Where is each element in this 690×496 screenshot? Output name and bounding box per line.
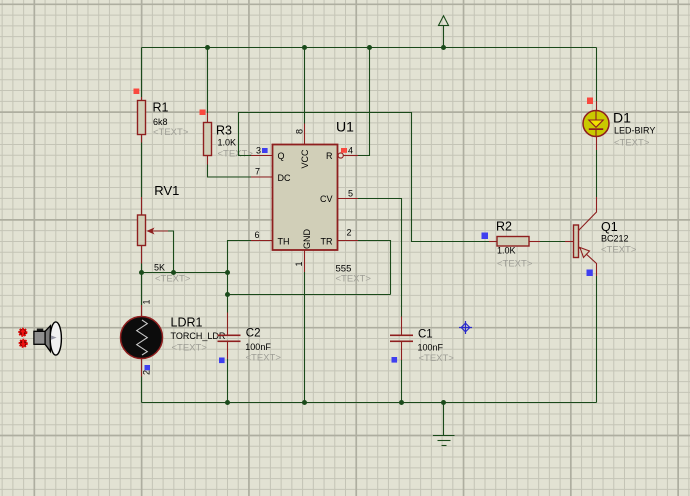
svg-text:5: 5	[348, 189, 353, 199]
transistor Q1	[574, 220, 637, 258]
marker red pin4	[341, 148, 347, 153]
wire LDR1 pin 1	[141, 305, 143, 317]
LED D1	[583, 110, 655, 149]
wire RV1 top pin	[141, 197, 143, 215]
svg-text:TR: TR	[321, 237, 333, 247]
svg-text:1.0K: 1.0K	[497, 246, 516, 256]
potentiometer RV1	[138, 183, 191, 285]
svg-text:<TEXT>: <TEXT>	[419, 353, 455, 364]
svg-text:U1: U1	[336, 119, 354, 135]
marker blue C1	[392, 357, 398, 363]
junction node wiper	[171, 270, 176, 275]
wire R2 right pin	[529, 241, 540, 243]
svg-text:<TEXT>: <TEXT>	[153, 127, 189, 138]
wire pin 7 DC stub	[251, 176, 273, 178]
svg-text:1: 1	[141, 299, 151, 304]
svg-text:<TEXT>: <TEXT>	[601, 245, 637, 256]
svg-text:2: 2	[347, 228, 352, 238]
marker blue Q1	[587, 270, 593, 277]
svg-text:Q: Q	[278, 151, 285, 161]
wire emitter to bottom rail	[596, 276, 598, 403]
svg-text:LDR1: LDR1	[171, 316, 203, 330]
svg-text:TH: TH	[278, 237, 290, 247]
marker blue R2	[482, 233, 489, 240]
wire pin 1 to bottom rail	[304, 272, 306, 403]
wire R3 bottom pin	[207, 156, 209, 165]
wire output Q path	[239, 113, 490, 242]
wire C2 to bottom rail	[227, 359, 229, 403]
wire pin 2 TR stub	[338, 240, 359, 242]
wire CV to C1	[358, 199, 402, 317]
wire C1 top pin	[401, 317, 403, 337]
svg-text:R2: R2	[496, 220, 512, 234]
resistor R1	[138, 101, 189, 139]
svg-text:1.0K: 1.0K	[218, 138, 237, 148]
junction node bottom rail pin1	[302, 400, 307, 405]
svg-text:<TEXT>: <TEXT>	[497, 259, 533, 270]
wire RV1 to node	[141, 264, 143, 273]
marker blue C2	[219, 358, 225, 364]
marker blue LDR1	[145, 365, 151, 370]
svg-text:<TEXT>: <TEXT>	[155, 274, 191, 285]
wire R1 top pin	[141, 97, 143, 101]
junction node bottom rail C2	[225, 400, 230, 405]
junction node bottom rail C1	[399, 400, 404, 405]
wire bottom ground rail	[142, 402, 597, 404]
wire pin 5 CV stub	[338, 198, 359, 200]
wire C1 bottom pin	[401, 341, 403, 361]
wire LDR to bottom rail	[141, 377, 143, 403]
svg-text:CV: CV	[320, 194, 333, 204]
marker blue pin3	[262, 148, 268, 153]
wire pin 2 TR leg	[358, 241, 391, 295]
wire R1 bottom pin	[141, 135, 143, 143]
svg-text:<TEXT>: <TEXT>	[614, 138, 650, 149]
wire wiper horizontal	[148, 230, 169, 232]
wire Q1 base pin	[565, 241, 574, 243]
wire C1 to bottom rail	[401, 360, 403, 403]
junction node left rail wiper	[139, 270, 144, 275]
wire LED branch from rail	[596, 48, 598, 102]
wire pin 4 stub to bubble	[344, 155, 359, 157]
wire rail node to pin6 column	[142, 272, 228, 274]
wire VCC top rail	[142, 47, 597, 49]
svg-text:6k8: 6k8	[153, 117, 168, 127]
junction node pin6 column A	[225, 270, 230, 275]
svg-text:R1: R1	[153, 101, 169, 115]
wire R3 to pin 7 corner	[208, 165, 252, 178]
svg-text:7: 7	[255, 167, 260, 177]
svg-text:5K: 5K	[154, 263, 165, 273]
svg-text:8: 8	[295, 129, 305, 134]
marker red R1	[134, 89, 140, 95]
svg-text:BC212: BC212	[601, 234, 629, 244]
svg-text:100nF: 100nF	[245, 342, 271, 352]
resistor R3	[204, 123, 237, 156]
marker red R3	[200, 110, 206, 116]
wire wiper to node	[168, 231, 174, 273]
svg-text:<TEXT>: <TEXT>	[336, 274, 372, 285]
wire Q1 collector pin	[579, 197, 597, 231]
wire RV1 bottom pin	[141, 246, 143, 264]
svg-text:VCC: VCC	[300, 149, 310, 169]
svg-text:100nF: 100nF	[418, 343, 444, 353]
wire LED to collector	[596, 150, 598, 197]
svg-text:DC: DC	[278, 173, 291, 183]
wire D1 top pin	[596, 101, 598, 111]
svg-text:2: 2	[141, 370, 151, 375]
junction node top rail at pin 8	[302, 45, 307, 50]
wire C2 top lead	[227, 295, 229, 313]
wire left rail top to R1	[141, 48, 143, 98]
svg-text:LED-BIRY: LED-BIRY	[614, 126, 655, 136]
wire pin 1 GND pin	[304, 250, 306, 272]
wire R1 to RV1	[141, 143, 143, 198]
wire node to LDR	[141, 273, 143, 306]
wire pin 6 to node column	[228, 241, 252, 295]
junction node top rail at R3	[205, 45, 210, 50]
svg-text:R: R	[326, 151, 333, 161]
marker red D1	[587, 98, 593, 105]
svg-text:3: 3	[256, 146, 261, 156]
svg-text:<TEXT>: <TEXT>	[246, 353, 282, 364]
svg-text:R3: R3	[216, 124, 232, 138]
resistor R2	[496, 220, 533, 270]
wire R2 to base	[540, 241, 565, 243]
svg-text:GND: GND	[302, 229, 312, 250]
svg-text:<TEXT>: <TEXT>	[172, 343, 208, 354]
svg-text:1: 1	[294, 261, 304, 266]
speaker icon	[19, 322, 61, 355]
svg-text:RV1: RV1	[154, 183, 179, 198]
wire C2 bottom pin	[227, 341, 229, 360]
capacitor C2	[218, 328, 282, 364]
svg-text:4: 4	[348, 146, 353, 156]
origin marker	[459, 321, 472, 334]
wire D1 bottom pin	[596, 137, 598, 151]
wire Q1 emitter pin	[579, 247, 597, 276]
wire trigger horizontal	[228, 294, 391, 296]
capacitor C1	[390, 329, 454, 365]
ground	[433, 403, 455, 446]
wire C2 top pin	[227, 313, 229, 337]
svg-text:C1: C1	[418, 329, 433, 341]
junction node bottom rail at ground	[441, 400, 446, 405]
wire pin 6 TH stub	[251, 240, 273, 242]
svg-text:D1: D1	[613, 110, 631, 126]
wire pin 8 drop	[304, 48, 306, 124]
svg-text:Q1: Q1	[601, 220, 618, 234]
wire pin 4 riser	[358, 48, 370, 156]
wire LDR1 pin 2	[141, 359, 143, 377]
junction node pin6 column B	[225, 292, 230, 297]
junction node top rail at power	[441, 45, 446, 50]
junction node top rail at pin 4	[367, 45, 372, 50]
svg-text:6: 6	[254, 230, 259, 240]
wire R3 top pin	[207, 113, 209, 123]
svg-text:<TEXT>: <TEXT>	[218, 149, 254, 160]
LDR LDR1	[121, 299, 226, 375]
svg-text:C2: C2	[246, 328, 261, 340]
wire pin 8 stub	[304, 124, 306, 146]
wire R3 branch from rail	[207, 48, 209, 114]
op-amp U1 555 timer body	[254, 119, 371, 285]
power symbol VCC arrow	[438, 16, 449, 48]
wire pin 3 Q stub	[251, 155, 273, 157]
wire R2 left pin	[489, 241, 497, 243]
